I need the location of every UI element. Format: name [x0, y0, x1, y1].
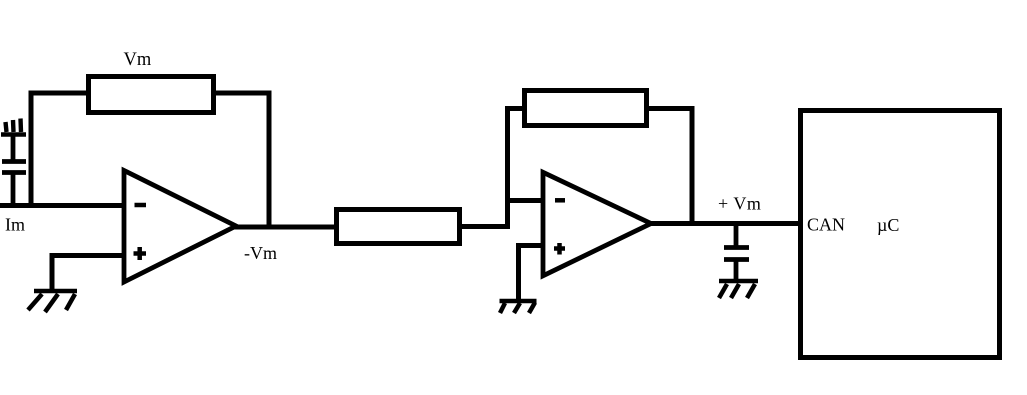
wire U2 output to µC CAN pin (net + Vm) [648, 221, 800, 226]
capacitor C2 (filter capacitor on + Vm) [724, 223, 749, 281]
resistor R2 (series resistor) [337, 210, 460, 244]
svg-text:Vm: Vm [124, 50, 152, 70]
svg-text:Im: Im [5, 215, 25, 235]
wire U2 inverting node vertical (up to R3 left side) [508, 109, 525, 230]
op-amp U2 [543, 172, 651, 275]
op-amp U1 [124, 171, 236, 283]
wire R2 to U2 inverting node [459, 224, 510, 229]
svg-text:+ Vm: + Vm [718, 194, 761, 214]
ground GND3 (below U2 non-inverting input) [500, 301, 537, 313]
wire Im input (main horizontal into U1 inverting input) [0, 203, 124, 208]
resistor R1 (feedback resistor, value Vm) [89, 77, 214, 113]
wire R3 to U2 output (feedback right leg) [646, 109, 692, 226]
svg-text:µC: µC [877, 215, 899, 235]
wire U2 inverting input stub [505, 198, 543, 203]
wire feedback left leg (Im node up to R1) [31, 93, 88, 205]
wire U1 output to R2 (net -Vm) [234, 225, 339, 230]
wire U1 non-inverting input to ground [52, 256, 124, 292]
svg-text:-Vm: -Vm [244, 243, 277, 263]
ground GND1 (inverted chassis ground above C1) [1, 119, 26, 135]
wire R1 to U1 output (feedback right leg) [213, 93, 269, 227]
ground GND2 (below U1 non-inverting input) [28, 291, 77, 312]
ground GND4 (below C2) [719, 281, 758, 298]
microcontroller µC (box) [801, 111, 1000, 358]
resistor R3 (U2 feedback resistor) [525, 91, 647, 126]
svg-text:CAN: CAN [807, 215, 845, 235]
capacitor C1 [2, 135, 26, 205]
wire U2 non-inverting input to ground [519, 246, 544, 300]
